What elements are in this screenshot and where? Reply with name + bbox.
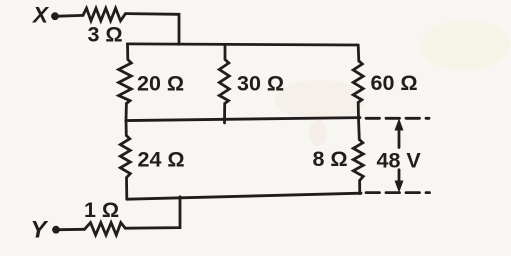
resistor 20Ω (119, 44, 132, 121)
wire bottom bus (127, 193, 361, 199)
svg-text:3 Ω: 3 Ω (88, 23, 123, 47)
svg-text:20 Ω: 20 Ω (137, 72, 184, 96)
svg-text:60 Ω: 60 Ω (371, 71, 418, 95)
node Y bullet (53, 226, 60, 233)
wire from 3Ω to top bus (126, 14, 180, 45)
wire middle bus (126, 118, 360, 121)
svg-text:Y: Y (31, 217, 49, 244)
wire middle bus dashed extension (366, 117, 429, 120)
wire bottom bus dashed extension (366, 191, 430, 194)
wire Y lead (59, 228, 85, 231)
resistor 1Ω (85, 223, 126, 235)
48V arrow up (398, 128, 401, 148)
wire X lead (58, 14, 83, 18)
48V arrow down (398, 170, 401, 183)
svg-text:48 V: 48 V (377, 149, 422, 173)
wire top bus (127, 44, 358, 45)
resistor 30Ω (219, 44, 229, 122)
resistor 60Ω (353, 45, 363, 118)
svg-text:X: X (31, 3, 50, 28)
resistor 8Ω (353, 118, 363, 194)
node X bullet (52, 13, 59, 20)
resistor 3Ω (83, 8, 126, 21)
svg-text:24 Ω: 24 Ω (138, 148, 185, 172)
svg-text:8 Ω: 8 Ω (313, 147, 348, 171)
svg-text:1 Ω: 1 Ω (84, 198, 119, 222)
resistor 24Ω (120, 120, 130, 199)
wire Y stub to bottom bus (125, 197, 180, 228)
svg-text:30 Ω: 30 Ω (237, 72, 284, 96)
